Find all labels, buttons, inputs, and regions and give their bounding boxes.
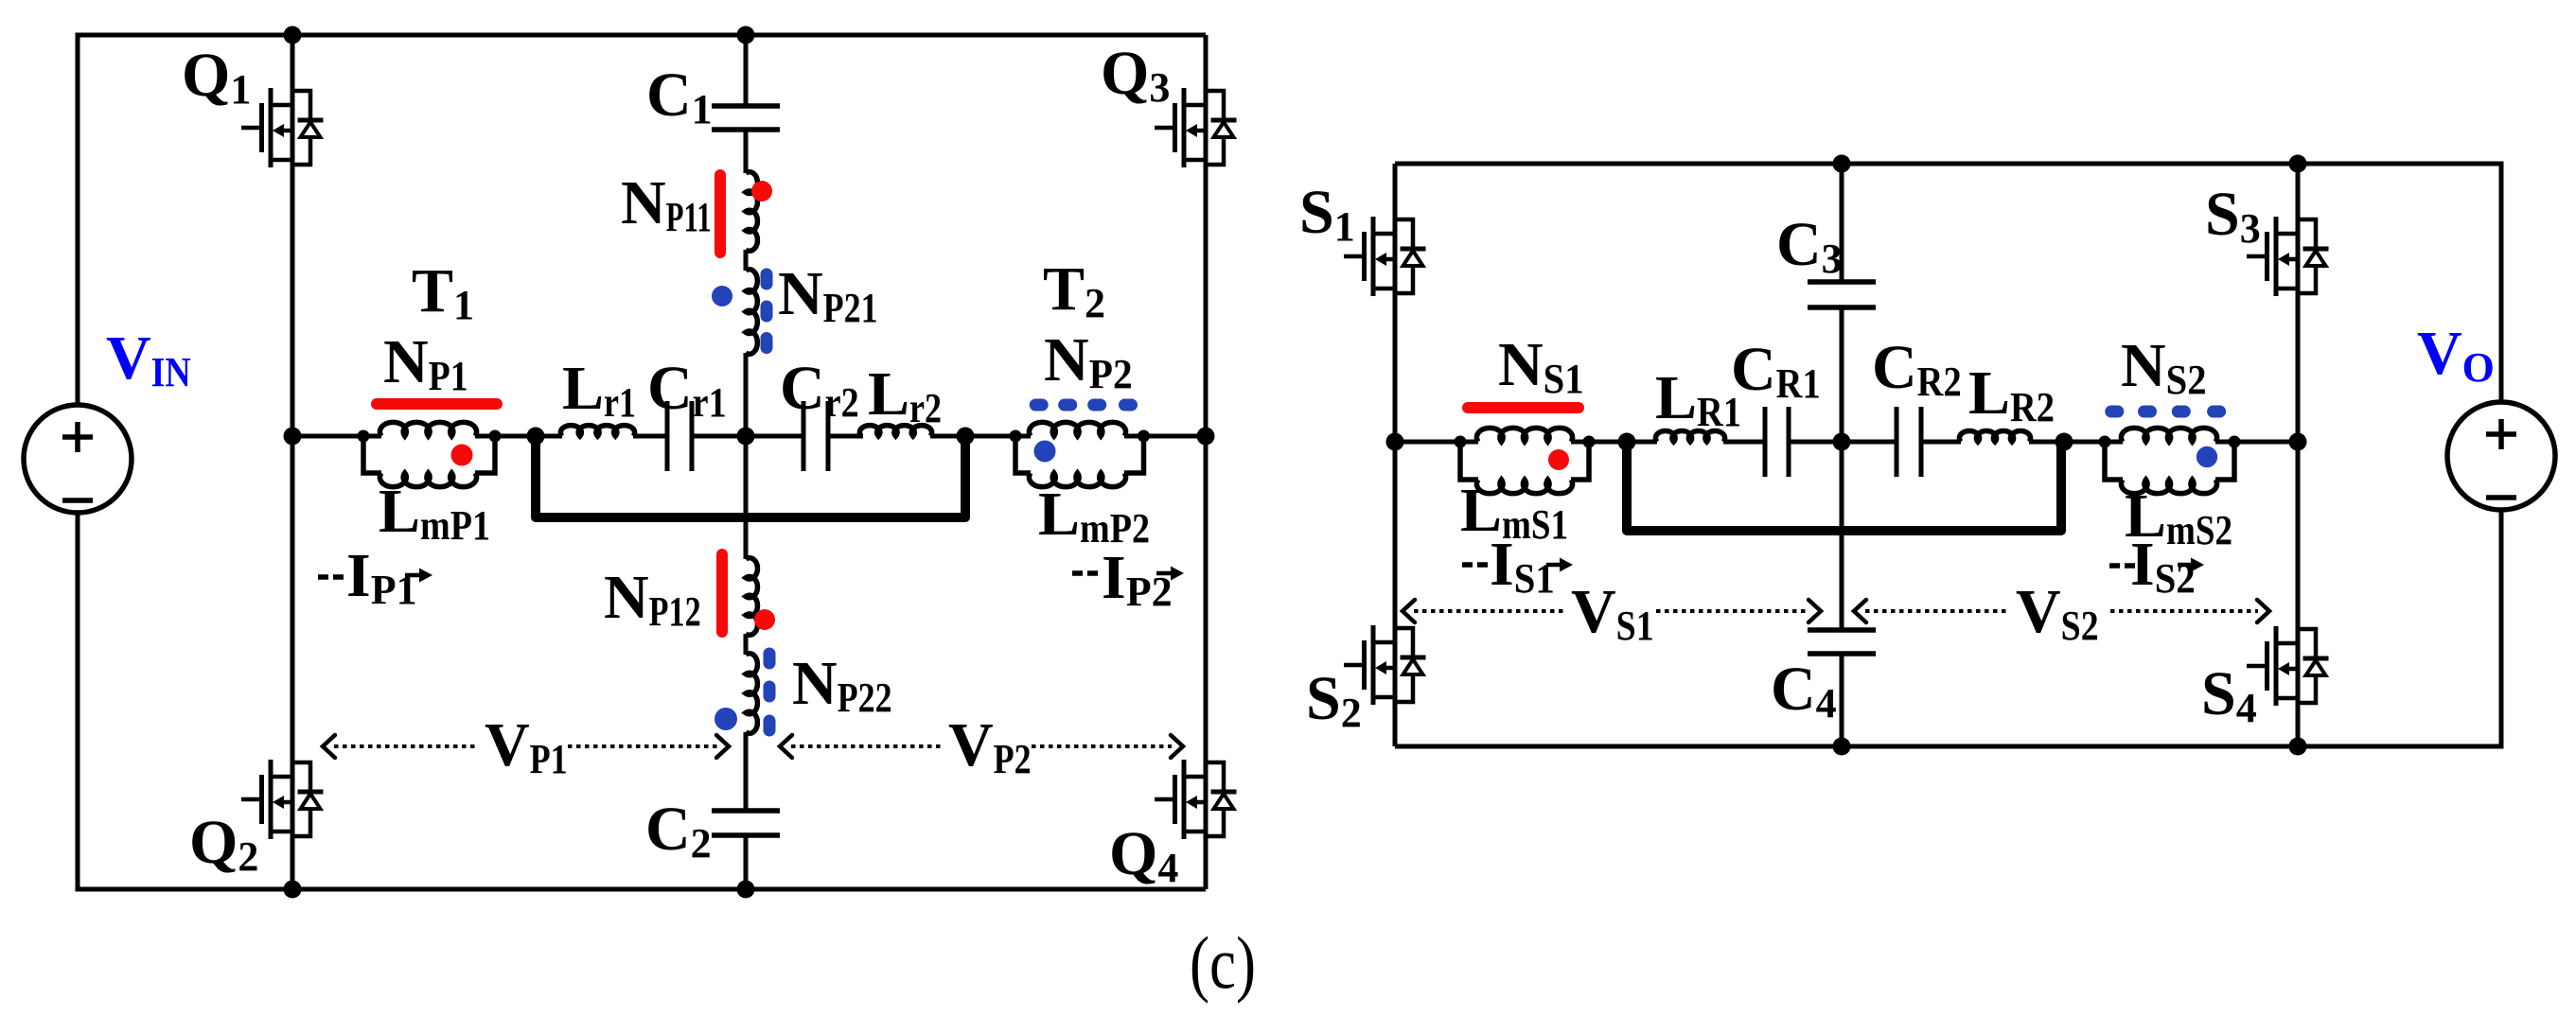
svg-text:(c): (c) bbox=[1190, 921, 1256, 1004]
